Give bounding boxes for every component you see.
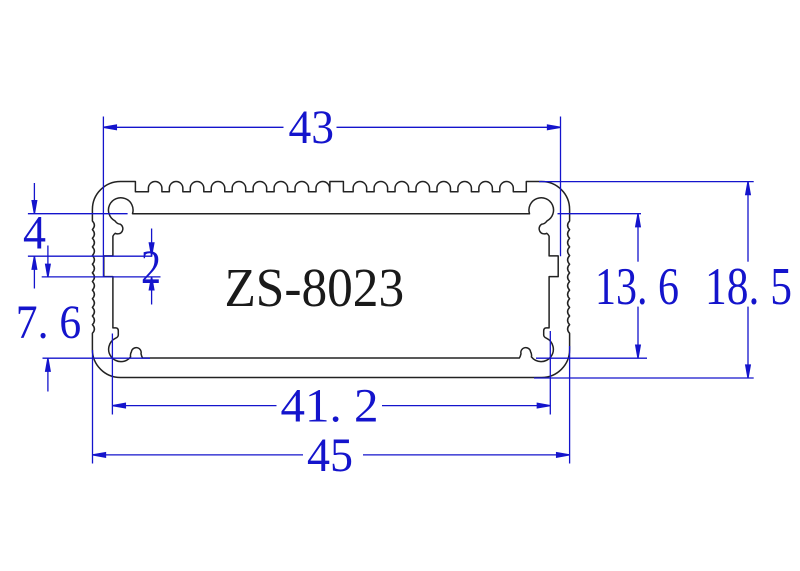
extension line inner-top (right) xyxy=(558,213,642,215)
extrusion inner cavity with screw bosses, PCB slots, hooks xyxy=(104,198,558,362)
dimension 41.2 (inner bottom width) xyxy=(112,405,276,407)
extension line outer-top (right) xyxy=(539,181,754,183)
extension lines for dim 4 (left, inner-top) xyxy=(28,213,128,215)
svg-text:ZS-8023: ZS-8023 xyxy=(224,257,404,318)
svg-text:45: 45 xyxy=(307,429,353,482)
dimension 43 (top width) xyxy=(103,126,283,128)
dimension 45 (overall width) xyxy=(93,454,304,456)
dimension 7.6 (slot to inner bottom) xyxy=(47,246,49,278)
svg-text:7. 6: 7. 6 xyxy=(16,296,81,349)
extension line inner-bottom (left) xyxy=(43,357,151,359)
svg-text:13. 6: 13. 6 xyxy=(595,258,679,316)
extension line 41.2 left xyxy=(111,334,113,415)
dimension 18.5 (overall height) xyxy=(747,182,749,262)
svg-text:43: 43 xyxy=(289,101,335,154)
svg-text:41. 2: 41. 2 xyxy=(281,380,379,433)
extension line 45 right xyxy=(569,346,571,464)
extrusion outer profile with fins and knurled sides xyxy=(92,182,569,378)
dimension 2 (slot height) xyxy=(151,229,153,256)
extension line 43 right xyxy=(560,117,562,257)
extension line slot-bottom (left) xyxy=(42,276,161,278)
svg-text:4: 4 xyxy=(23,207,46,260)
svg-text:18. 5: 18. 5 xyxy=(705,258,792,316)
svg-text:2: 2 xyxy=(141,241,161,294)
dimension 4 (top wall to slot) xyxy=(33,183,35,214)
extension line outer-bottom (right) xyxy=(534,377,754,379)
extension line slot-top (left) xyxy=(28,255,152,257)
extension line inner-bottom (right) xyxy=(536,357,647,359)
extension line 45 left xyxy=(92,350,94,464)
extension line 43 left xyxy=(102,117,104,278)
dimension 13.6 (inner height) xyxy=(637,214,639,262)
extension line 41.2 right xyxy=(549,331,551,415)
